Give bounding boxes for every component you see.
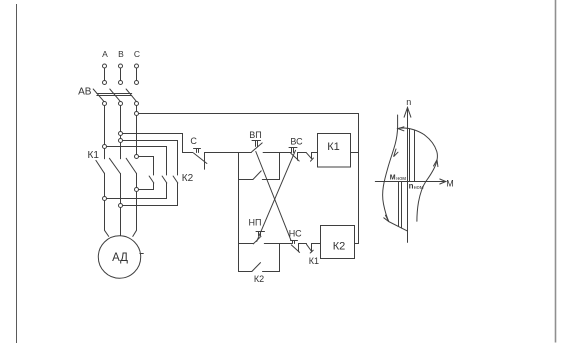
svg-text:С: С (134, 49, 140, 59)
curve left mid arrowhead (394, 149, 398, 157)
wire cross NP to VS (257, 150, 296, 241)
contactor K1 blade A (96, 160, 104, 173)
wire reverse rail segment 3 (299, 243, 307, 245)
wire control rail segment 3 (263, 152, 291, 154)
wire phase B down (120, 106, 122, 132)
coil K1 box (318, 134, 351, 168)
wire K2 holding right vertical (279, 244, 281, 272)
contact K1 interlock blade (307, 244, 312, 251)
contact K1 interlock tick (310, 250, 313, 253)
motor lead A (105, 201, 109, 237)
label M nominal (390, 175, 406, 182)
wire reverse rail segment 2 (264, 243, 291, 245)
button VP blade (252, 143, 262, 152)
label n nominal (409, 182, 424, 192)
contact K2 holding blade (252, 263, 261, 272)
wire cross VP to NS (256, 152, 291, 240)
wire phase B between taps (120, 136, 122, 139)
node C control tap (135, 112, 139, 116)
wire B tap to stop button C (123, 134, 183, 153)
button VS plungers (292, 148, 294, 153)
node B tap 2 (119, 139, 123, 143)
wire holding branch right vertical (279, 153, 281, 180)
breaker AB lower contact A (103, 102, 107, 106)
contactor K2 blade right (173, 176, 178, 183)
button NP plungers (259, 232, 261, 236)
wire K2 right pole to node B bottom (123, 183, 178, 206)
marker vertical line 2 below axis (401, 182, 403, 229)
contact K2 holding left segment (239, 271, 252, 273)
curve left bottom arrowhead (384, 215, 389, 221)
curve top transition (398, 128, 425, 135)
contactor K2 blade left (149, 176, 154, 183)
svg-text:С: С (190, 136, 197, 146)
breaker AB blade phase B (110, 89, 121, 101)
svg-text:М: М (390, 175, 396, 182)
wire phase C down (136, 106, 138, 112)
node B bottom (119, 204, 123, 208)
wire K1 box to right rail (351, 152, 359, 154)
contact K1 holding left segment (239, 179, 253, 181)
svg-text:А: А (102, 49, 108, 59)
button VP plungers (256, 141, 258, 147)
stop button C plungers (197, 149, 199, 153)
svg-text:К2: К2 (333, 241, 346, 253)
axis n arrowhead (404, 107, 411, 117)
motor lead B (120, 208, 122, 236)
marker vertical line 1 above axis (409, 129, 411, 182)
breaker AB lower contact B (119, 102, 123, 106)
button NP cap (256, 231, 265, 233)
contact K2 holding right segment (263, 271, 280, 273)
wire phase B stub to K1 (120, 143, 122, 159)
wire phase A below K1 (104, 173, 106, 196)
svg-text:К1: К1 (327, 141, 340, 153)
right page edge line (555, 0, 557, 343)
terminal B top (119, 64, 123, 85)
button VS fixed stub (297, 153, 299, 161)
curve left characteristic (383, 115, 408, 231)
svg-text:В: В (118, 49, 124, 59)
left page edge line (16, 4, 18, 343)
terminal A top (103, 64, 107, 85)
svg-text:М: М (446, 179, 454, 189)
svg-text:АД: АД (112, 252, 128, 264)
stop button C blade (193, 153, 207, 164)
motor AD shaft tick (140, 253, 143, 255)
svg-text:ВС: ВС (290, 137, 303, 147)
wire A tap to K2 middle pole (107, 147, 167, 176)
svg-text:АВ: АВ (78, 87, 92, 98)
svg-text:К1: К1 (88, 150, 100, 161)
contactor K1 blade B (109, 158, 120, 173)
contactor K2 blade middle (162, 176, 167, 183)
button VS blade slash (291, 153, 299, 161)
breaker AB lower contact C (135, 102, 139, 106)
contact K2 interlock blade (306, 153, 311, 159)
wire K2 middle pole to node A bottom (107, 183, 167, 199)
svg-text:НП: НП (249, 218, 262, 228)
stop button C cap (194, 148, 201, 150)
button NP blade (253, 236, 261, 244)
svg-text:НС: НС (289, 229, 302, 239)
wire control rail segment 1 (183, 152, 193, 154)
wire K2 left pole to node C bottom (139, 183, 154, 190)
wire phase C below K1 (136, 173, 138, 187)
wire control rail segment 2 (205, 152, 252, 154)
wire B tap to K2 right pole (123, 141, 178, 176)
svg-text:К1: К1 (309, 256, 319, 266)
breaker AB blade phase A (93, 89, 104, 101)
curve top left arrowhead (398, 127, 404, 131)
curve right arc arrowhead (434, 160, 438, 167)
marker vertical line 2 above axis (414, 130, 416, 181)
wire control rail segment 5 (312, 152, 318, 154)
wire control top rail from C tap (139, 113, 359, 115)
contact K1 holding blade (253, 171, 261, 180)
wire phase C between taps (136, 116, 138, 155)
button NS plungers (293, 241, 295, 244)
motor AD circle (98, 236, 140, 278)
button NS blade slash (291, 245, 299, 253)
wire phase B below K1 (120, 174, 122, 204)
button NS cap (291, 240, 298, 242)
svg-text:ном: ном (396, 176, 406, 182)
svg-text:К2: К2 (182, 173, 194, 184)
curve right characteristic (417, 135, 437, 221)
node C bottom (135, 188, 139, 192)
button NS fixed stub (298, 244, 300, 252)
wire K2 box to right rail (355, 243, 359, 245)
wire control rail segment 4 (298, 152, 307, 154)
contact K1 interlock stub (311, 244, 313, 253)
svg-text:К2: К2 (254, 274, 264, 284)
node A tap (103, 145, 107, 149)
motor lead C (133, 192, 137, 237)
breaker AB coupling bar (97, 94, 132, 96)
button VP cap (252, 140, 261, 142)
button VS cap (289, 147, 297, 149)
node B tap 1 (119, 132, 123, 136)
wire control right rail (358, 114, 360, 244)
svg-text:n: n (406, 97, 411, 107)
wire reverse rail segment 4 (312, 243, 321, 245)
contact K2 interlock stub (311, 153, 313, 159)
node A bottom (103, 197, 107, 201)
wire phase A down to K1 (104, 106, 106, 145)
wire holding branch left vertical (238, 153, 240, 272)
node C tap K2 (135, 155, 139, 159)
wire C tap to K2 left pole (139, 157, 154, 176)
svg-text:ВП: ВП (249, 130, 261, 140)
contact K1 holding right segment (262, 179, 279, 181)
wire reverse rail segment 1 (239, 243, 254, 245)
contact K2 interlock tick (311, 158, 314, 161)
axis M arrowhead (440, 179, 446, 184)
wire phase A stub to K1 (104, 149, 106, 159)
breaker AB blade phase C (126, 89, 136, 101)
axis M horizontal (375, 181, 446, 183)
contactor K1 blade C (126, 158, 136, 173)
axis n vertical (407, 108, 409, 243)
coil K2 box (321, 226, 355, 259)
stop button C fixed stub (204, 153, 206, 170)
terminal C top (135, 64, 139, 85)
marker vertical line 1 below axis (398, 182, 400, 227)
